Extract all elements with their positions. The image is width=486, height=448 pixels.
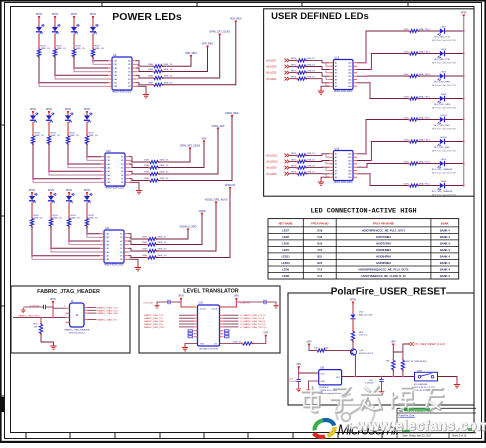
wire diode to resistor <box>352 319 354 332</box>
svg-text:3P3V: 3P3V <box>29 188 36 192</box>
watermark circle logo <box>336 393 374 430</box>
wire block3 row4 to flag <box>156 187 230 257</box>
wire input LED8 to IC <box>306 173 330 175</box>
svg-text:NET NAME: NET NAME <box>279 222 293 226</box>
junction trst resistor <box>40 317 42 319</box>
svg-text:LED7: LED7 <box>441 27 447 29</box>
junction rail LED7 <box>463 30 465 32</box>
svg-text:FABRIC_JTAG_TMS: FABRIC_JTAG_TMS <box>97 312 118 315</box>
svg-text:FABRIC_JTAG_TDO: FABRIC_JTAG_TDO <box>97 309 118 312</box>
svg-text:LT_FABRIC_JTAG_TMS (3.: LT_FABRIC_JTAG_TMS (3. <box>240 320 266 323</box>
svg-text:PT: PT <box>69 120 73 124</box>
svg-text:CA1: CA1 <box>107 156 111 159</box>
svg-text:A8: A8 <box>335 176 337 179</box>
wire port to pullup node <box>403 344 409 352</box>
ground u30 gnd pin <box>306 388 311 393</box>
junction jtag cap <box>52 306 54 308</box>
LED D12 block1 <box>52 27 58 31</box>
wire block1 col4 upper <box>92 18 94 28</box>
svg-text:4MA_YW_C: 4MA_YW_C <box>419 182 431 185</box>
resistor input LED8 243E <box>298 172 306 175</box>
svg-text:APG Part# GbL-3107T786: APG Part# GbL-3107T786 <box>432 84 456 87</box>
wire block3 col1 upper <box>31 194 33 197</box>
svg-text:LED4: LED4 <box>441 94 447 96</box>
svg-text:4MA_YW_C: 4MA_YW_C <box>419 50 431 53</box>
svg-text:A6: A6 <box>335 78 337 81</box>
svg-text:330E_1%: 330E_1% <box>71 218 81 220</box>
svg-text:10K: 10K <box>314 347 318 349</box>
wire block3 out row4 <box>128 256 146 258</box>
svg-text:BAJ_UD_005: BAJ_UD_005 <box>359 313 373 316</box>
svg-text:470E_1%: 470E_1% <box>233 341 242 343</box>
wire cap right to ground <box>266 302 276 304</box>
wire LED10 to rail <box>445 141 464 143</box>
svg-text:CA7: CA7 <box>348 173 352 176</box>
svg-text:CA8: CA8 <box>114 85 118 88</box>
wire block1 out row3 <box>136 75 152 78</box>
svg-text:APG Part# GbL-3107T786: APG Part# GbL-3107T786 <box>432 39 456 42</box>
wire row LED6 to LED <box>418 53 440 55</box>
svg-text:GND: GND <box>200 344 205 346</box>
svg-text:330E_1%: 330E_1% <box>95 48 105 50</box>
svg-text:POWER LEDs: POWER LEDs <box>112 11 182 23</box>
wire U13 out row3 <box>357 75 409 77</box>
wire U13 out row4 <box>357 83 409 99</box>
junction U14 row1 <box>365 153 367 155</box>
wire bus block2 col4 <box>87 144 101 157</box>
ground jtag cap <box>21 308 26 313</box>
svg-text:0.1uF/16V: 0.1uF/16V <box>143 302 154 304</box>
LED D14 block1 <box>90 27 96 31</box>
svg-text:LT_FABRIC_JTAG_TRST (3.: LT_FABRIC_JTAG_TRST (3. <box>240 326 267 329</box>
wire pullups to net <box>392 370 394 377</box>
svg-text:CA4: CA4 <box>114 71 118 74</box>
wire base chain <box>309 345 317 350</box>
svg-text:FABRIC_JTAG_TDO: FABRIC_JTAG_TDO <box>144 323 164 326</box>
svg-text:VPP_REG: VPP_REG <box>202 43 214 46</box>
wire U14 out row1 <box>357 120 409 154</box>
svg-text:SN74AVC4T774PW: SN74AVC4T774PW <box>199 347 218 350</box>
wire block3 col3 mid <box>68 203 70 219</box>
svg-text:APG Part# GbL-3107T786: APG Part# GbL-3107T786 <box>432 107 456 110</box>
connector J3 FABRIC_JTAG_HEADER <box>70 303 85 327</box>
wire gnd level <box>185 344 198 346</box>
svg-text:(H) LED6: (H) LED6 <box>266 66 277 69</box>
svg-text:3P3V: 3P3V <box>52 12 59 16</box>
wire block1 out row4 <box>136 83 152 85</box>
svg-text:Sheet 5 of 10: Sheet 5 of 10 <box>452 435 467 438</box>
wire input LED6 to IC <box>306 67 330 70</box>
wire block1 out row1 <box>136 61 152 66</box>
wire block1 row2 to flag <box>162 46 208 72</box>
svg-text:BANK-4: BANK-4 <box>440 261 451 265</box>
svg-text:Date: Friday, April 21, 201: Date: Friday, April 21, 2017 <box>403 435 432 438</box>
svg-text:A1: A1 <box>335 62 337 65</box>
svg-text:BLU_LED_GRN: BLU_LED_GRN <box>434 82 450 84</box>
svg-text:URV: URV <box>306 340 311 343</box>
svg-text:3.3uF/6V: 3.3uF/6V <box>365 383 374 385</box>
LED D34 block3 <box>84 196 90 200</box>
svg-text:LED4: LED4 <box>282 248 289 252</box>
resistor network U14 <box>333 151 353 181</box>
border ruler ticks top <box>101 3 103 7</box>
level translator left rows <box>194 314 198 316</box>
svg-text:B4: B4 <box>121 168 123 170</box>
wire LED6 to rail <box>445 53 464 55</box>
wire LED7 to rail <box>445 30 464 32</box>
svg-text:CA3: CA3 <box>348 159 352 162</box>
wire OE resistor <box>220 343 243 345</box>
ground block3 <box>128 259 138 265</box>
svg-text:SW3: SW3 <box>417 370 423 372</box>
svg-text:B7: B7 <box>121 179 123 181</box>
resistor input LED5 243E <box>298 71 306 74</box>
svg-text:3P3V: 3P3V <box>178 295 184 298</box>
junction block1 col2 <box>54 74 56 76</box>
wire 3P3V to diode <box>352 303 354 314</box>
svg-text:3P3V: 3P3V <box>461 10 468 14</box>
svg-text:A7: A7 <box>335 82 337 85</box>
junction U13 row1 <box>365 62 367 64</box>
wire block1 col2 mid <box>54 34 56 50</box>
svg-text:10K_1%: 10K_1% <box>359 335 367 337</box>
svg-text:BLU_LED_ORANGE: BLU_LED_ORANGE <box>432 168 453 171</box>
svg-text:3P3V: 3P3V <box>30 107 37 111</box>
svg-text:B6: B6 <box>128 79 130 81</box>
junction U13 row4 <box>369 82 371 84</box>
wire U14 out row4 <box>357 174 409 186</box>
svg-text:CA1: CA1 <box>114 60 118 63</box>
wire U14 out row3 <box>357 164 409 168</box>
svg-text:NPP: NPP <box>359 332 364 334</box>
svg-text:B3: B3 <box>120 241 122 243</box>
wire bus block2 col2 <box>49 144 101 172</box>
svg-text:3P3V: 3P3V <box>50 298 56 301</box>
svg-text:(H) LED9: (H) LED9 <box>266 167 277 170</box>
svg-text:CA4: CA4 <box>106 244 110 247</box>
svg-text:FABRIC_JTAG_TDI: FABRIC_JTAG_TDI <box>144 317 163 320</box>
wire U14 out row2 <box>357 142 409 161</box>
svg-text:CA5: CA5 <box>106 247 110 250</box>
svg-text:LED6: LED6 <box>282 235 289 239</box>
LED D21 block2 <box>30 115 36 119</box>
wire block2 col4 mid <box>86 122 88 136</box>
wire bus block3 col3 <box>69 226 100 241</box>
svg-text:0.1uF/16V: 0.1uF/16V <box>240 302 251 304</box>
svg-text:CA2: CA2 <box>348 65 352 68</box>
wire 3P3V jtag down <box>52 303 54 318</box>
wire block2 col3 mid <box>67 122 69 136</box>
svg-text:330E_1%: 330E_1% <box>158 255 167 257</box>
svg-text:CA5: CA5 <box>348 75 352 78</box>
svg-text:DS1818-R: DS1818-R <box>319 387 329 389</box>
svg-text:CA6: CA6 <box>107 174 111 177</box>
wire input LED9 <box>290 167 297 169</box>
svg-text:CA1: CA1 <box>348 153 352 156</box>
svg-text:FABRIC_JTAG_TDI: FABRIC_JTAG_TDI <box>97 319 117 322</box>
svg-text:FABRIC_JTAG_TRST: FABRIC_JTAG_TRST <box>144 326 165 329</box>
resistor R73 pullup <box>392 361 395 370</box>
svg-text:3P3V: 3P3V <box>36 12 43 16</box>
svg-text:CA7: CA7 <box>107 178 111 181</box>
junction U13 row2 <box>371 69 373 71</box>
svg-text:B1: B1 <box>121 157 123 159</box>
svg-text:CA7: CA7 <box>106 255 110 258</box>
svg-text:330E_1%: 330E_1% <box>160 160 169 162</box>
resistor input LED6 243E <box>298 65 306 68</box>
svg-text:HSIO84NB4: HSIO84NB4 <box>376 248 391 252</box>
svg-text:4MA_YW_C: 4MA_YW_C <box>419 28 431 31</box>
svg-text:A5: A5 <box>335 166 337 169</box>
wire block1 row1 to flag <box>162 56 191 67</box>
ground level left <box>154 304 159 309</box>
svg-text:LED11: LED11 <box>440 115 447 117</box>
svg-text:330E_1%: 330E_1% <box>34 218 44 220</box>
wire resistor to transistor <box>352 341 354 350</box>
table LED connection <box>268 219 459 279</box>
svg-text:A6: A6 <box>335 169 337 172</box>
svg-text:FABRIC_JTAG_TCK: FABRIC_JTAG_TCK <box>144 314 164 317</box>
wire bus block1 col2 <box>55 57 108 76</box>
wire block2 row1 to flag <box>158 148 190 162</box>
svg-text:CA6: CA6 <box>348 78 352 81</box>
svg-text:330E_1%: 330E_1% <box>158 242 167 244</box>
svg-text:TSW-105-08-G-D: TSW-105-08-G-D <box>68 332 86 334</box>
svg-text:3P3V: 3P3V <box>90 12 97 16</box>
wire input LED4 <box>290 78 297 80</box>
junction block3 col3 <box>68 240 70 242</box>
resistor input LED7 243E <box>298 59 306 62</box>
svg-text:243E_1%: 243E_1% <box>307 172 316 174</box>
wire row LED11 to LED <box>418 119 440 121</box>
svg-text:CA3: CA3 <box>107 163 111 166</box>
svg-text:B5: B5 <box>121 171 123 173</box>
svg-text:PT: PT <box>50 120 54 124</box>
svg-text:4MA_YW_C: 4MA_YW_C <box>419 95 431 98</box>
svg-text:B16: B16 <box>317 241 322 245</box>
svg-text:330E_1%: 330E_1% <box>76 48 86 50</box>
svg-text:PT: PT <box>34 120 38 124</box>
svg-text:A3: A3 <box>335 68 337 71</box>
wire bus block3 col4 <box>87 226 100 234</box>
svg-text:330E_1%: 330E_1% <box>164 76 173 78</box>
svg-text:330E_1%: 330E_1% <box>51 135 61 137</box>
wire row LED9 to LED <box>418 163 440 165</box>
resistor input LED9 243E <box>298 166 306 169</box>
connector J3 left pins <box>66 307 70 309</box>
junction block3 col1 <box>31 255 33 257</box>
junction block1 col4 <box>92 60 94 62</box>
ground level ic <box>182 345 188 351</box>
svg-text:330E_1%: 330E_1% <box>160 172 169 174</box>
svg-text:330E_1%: 330E_1% <box>53 218 63 220</box>
IC U32 level translator <box>198 305 220 346</box>
svg-text:URV: URV <box>263 332 268 335</box>
wire block2 col3 upper <box>67 113 69 117</box>
svg-text:APG Part# GbL-3107T786: APG Part# GbL-3107T786 <box>432 150 456 153</box>
svg-text:VDA_REG: VDA_REG <box>230 18 242 21</box>
svg-text:B7: B7 <box>128 83 130 85</box>
svg-text:EVQ-PAD04M: EVQ-PAD04M <box>414 383 428 386</box>
svg-text:F13: F13 <box>317 267 322 271</box>
wire block2 col2 upper <box>48 113 50 117</box>
svg-text:CA5: CA5 <box>107 170 111 173</box>
svg-text:CA8: CA8 <box>348 85 352 88</box>
section box FABRIC_JTAG_HEADER <box>11 286 130 353</box>
wire cap right to junction <box>236 301 264 303</box>
svg-text:HSIO84PB4: HSIO84PB4 <box>376 254 391 258</box>
svg-text:CA3: CA3 <box>114 67 118 70</box>
LED D22 block2 <box>46 115 52 119</box>
svg-text:A3: A3 <box>335 159 337 162</box>
wire row LED4 to LED <box>418 98 440 100</box>
svg-text:VDDAUX: VDDAUX <box>225 184 236 187</box>
svg-text:APG Part# GbL-3107T786: APG Part# GbL-3107T786 <box>432 194 456 197</box>
svg-text:A2: A2 <box>335 65 337 68</box>
svg-text:C17: C17 <box>317 274 322 278</box>
junction c63 <box>298 372 300 374</box>
wire c62 gnd <box>381 382 383 390</box>
svg-text:U30: U30 <box>320 367 325 369</box>
level translator lower pin stubs left <box>194 330 198 332</box>
svg-text:LED8: LED8 <box>282 274 289 278</box>
wire switch to gnd <box>438 377 458 382</box>
svg-text:LED8: LED8 <box>441 181 447 183</box>
svg-text:PT: PT <box>94 32 98 36</box>
wire bus block3 col2 <box>51 226 100 248</box>
resistor network U11 block3 <box>104 230 124 263</box>
wire block2 col1 mid <box>32 122 34 136</box>
svg-text:U11: U11 <box>105 226 110 230</box>
svg-text:VDDR: VDDR <box>198 210 205 213</box>
svg-text:3P3V: 3P3V <box>71 12 78 16</box>
svg-text:4606X-R2R-103LF: 4606X-R2R-103LF <box>334 91 354 93</box>
wire block1 col3 mid <box>73 34 75 50</box>
svg-text:(H) LED8: (H) LED8 <box>266 173 277 176</box>
svg-text:CA2: CA2 <box>114 63 118 66</box>
svg-text:330E_1%: 330E_1% <box>158 237 167 239</box>
svg-text:3P3V: 3P3V <box>350 297 357 301</box>
wire input LED7 to IC <box>306 60 330 62</box>
wire c63 gnd <box>298 382 300 388</box>
svg-text:CA7: CA7 <box>114 82 118 85</box>
junction rail LED6 <box>463 53 465 55</box>
LED D11 block1 <box>36 27 42 31</box>
svg-text:330E_1%: 330E_1% <box>158 249 167 251</box>
ground switch <box>454 382 460 388</box>
svg-text:4606X-R2R-103LF: 4606X-R2R-103LF <box>104 265 124 267</box>
svg-text:PT: PT <box>40 32 44 36</box>
junction block2 col3 <box>67 163 69 165</box>
wire OE to URV <box>252 336 266 343</box>
svg-text:A5: A5 <box>335 75 337 78</box>
svg-text:USER DEFINED LEDs: USER DEFINED LEDs <box>271 11 369 22</box>
svg-text:CA2: CA2 <box>348 156 352 159</box>
svg-text:VDD_REG: VDD_REG <box>185 52 197 55</box>
wire block3 row2 to flag <box>156 213 202 244</box>
svg-text:U10: U10 <box>106 149 111 153</box>
svg-text:B3: B3 <box>121 164 123 166</box>
svg-text:D18: D18 <box>317 228 322 232</box>
svg-text:HSIO70PB4/CCC_NE_PLL1_OUT1: HSIO70PB4/CCC_NE_PLL1_OUT1 <box>362 228 406 232</box>
svg-text:U13: U13 <box>334 56 339 60</box>
wire block1 row3 to flag <box>162 34 220 78</box>
junction rail LED8 <box>463 185 465 187</box>
LED D13 block1 <box>71 27 77 31</box>
junction rail LED11 <box>463 119 465 121</box>
svg-text:URV: URV <box>296 363 301 366</box>
junction block3 col2 <box>50 247 52 249</box>
junction U14 row2 <box>371 160 373 162</box>
title block table <box>397 407 476 409</box>
svg-text:BANK-4: BANK-4 <box>440 228 451 232</box>
junction rail LED9 <box>463 163 465 165</box>
svg-text:U14: U14 <box>334 147 339 151</box>
svg-text:B22: B22 <box>317 261 322 265</box>
svg-text:B2: B2 <box>128 64 130 66</box>
svg-text:330E_1%: 330E_1% <box>160 178 169 180</box>
svg-text:BLU_LED_RED: BLU_LED_RED <box>434 147 450 149</box>
svg-text:243E_1%: 243E_1% <box>307 58 316 60</box>
resistor R74 pullup <box>401 361 404 370</box>
wire input LED4 to IC <box>306 79 330 83</box>
ground jtag resistor <box>50 344 56 350</box>
wire cap left to ground <box>157 302 168 304</box>
svg-text:BANK-4: BANK-4 <box>440 235 451 239</box>
svg-text:CA4: CA4 <box>348 163 352 166</box>
connector J3 right pins and jtag labels <box>84 307 88 309</box>
junction trst rail <box>52 317 54 319</box>
sheet edge bars <box>0 0 486 2</box>
svg-text:LED9: LED9 <box>282 267 289 271</box>
resistor input LED10 243E <box>298 160 306 163</box>
svg-text:BANK-4: BANK-4 <box>440 274 451 278</box>
svg-text:B4: B4 <box>120 245 122 247</box>
svg-text:BLU_LED_RED: BLU_LED_RED <box>434 125 450 127</box>
junction emitter <box>355 376 357 378</box>
wire LED4 to rail <box>445 98 464 100</box>
svg-text:B2: B2 <box>120 237 122 239</box>
section title PolarFire_USER_RESET <box>332 283 446 295</box>
svg-text:BANK: BANK <box>441 222 449 226</box>
svg-text:CA5: CA5 <box>348 166 352 169</box>
svg-text:FABRIC_JTAG_TMS: FABRIC_JTAG_TMS <box>144 320 164 323</box>
wire row LED5 to LED <box>418 75 440 77</box>
svg-text:243E_1%: 243E_1% <box>307 70 316 72</box>
svg-text:BANK-4: BANK-4 <box>440 267 451 271</box>
svg-text:4MA_YW_C: 4MA_YW_C <box>419 116 431 119</box>
wire input LED7 <box>290 59 297 61</box>
section box LEVEL TRANSLATOR <box>139 286 280 353</box>
svg-text:330E_1%: 330E_1% <box>164 82 173 84</box>
wire bus block1 col4 <box>93 57 108 61</box>
svg-text:VDDA_R2V: VDDA_R2V <box>211 125 225 128</box>
wire input LED6 <box>290 66 297 68</box>
svg-text:B5: B5 <box>128 75 130 77</box>
svg-text:CA6: CA6 <box>106 251 110 254</box>
svg-text:VDDA_REG: VDDA_REG <box>225 112 239 115</box>
svg-text:CA7: CA7 <box>348 82 352 85</box>
svg-text:330E_1%: 330E_1% <box>57 48 67 50</box>
wire block3 row3 to flag <box>156 202 216 251</box>
svg-text:3P3V: 3P3V <box>46 107 53 111</box>
wire base to transistor <box>325 350 350 352</box>
wire block1 row4 to flag <box>162 21 236 85</box>
wire row LED7 to LED <box>418 30 440 32</box>
svg-text:A7: A7 <box>335 173 337 176</box>
svg-text:330E_1%: 330E_1% <box>35 135 45 137</box>
svg-text:B8: B8 <box>128 86 130 88</box>
